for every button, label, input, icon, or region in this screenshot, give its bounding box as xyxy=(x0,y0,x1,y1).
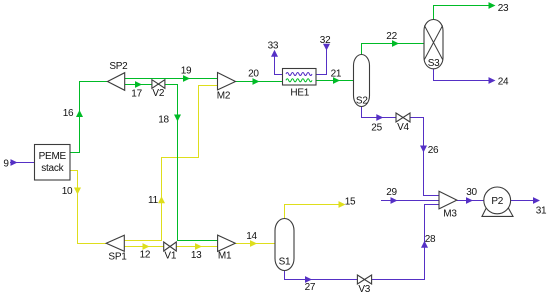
svg-text:31: 31 xyxy=(536,206,547,217)
svg-text:V4: V4 xyxy=(397,122,409,133)
svg-text:19: 19 xyxy=(181,66,192,77)
svg-text:M1: M1 xyxy=(218,251,232,262)
svg-text:stack: stack xyxy=(41,163,64,174)
svg-text:P2: P2 xyxy=(491,196,503,207)
svg-text:S2: S2 xyxy=(356,95,368,106)
svg-text:18: 18 xyxy=(158,115,169,126)
svg-text:24: 24 xyxy=(498,77,509,88)
svg-text:SP1: SP1 xyxy=(108,252,127,263)
svg-text:26: 26 xyxy=(428,145,439,156)
svg-text:S3: S3 xyxy=(428,58,440,69)
svg-text:SP2: SP2 xyxy=(109,61,128,72)
svg-text:17: 17 xyxy=(131,88,142,99)
svg-text:9: 9 xyxy=(3,158,9,169)
svg-text:25: 25 xyxy=(371,122,382,133)
svg-text:21: 21 xyxy=(331,69,342,80)
svg-text:PEME: PEME xyxy=(39,151,67,162)
svg-text:22: 22 xyxy=(386,31,397,42)
svg-text:30: 30 xyxy=(466,187,477,198)
svg-text:V3: V3 xyxy=(358,284,370,295)
svg-text:33: 33 xyxy=(268,40,279,51)
svg-text:27: 27 xyxy=(305,282,316,293)
svg-text:20: 20 xyxy=(248,69,259,80)
svg-text:V1: V1 xyxy=(164,250,176,261)
svg-text:29: 29 xyxy=(386,187,397,198)
svg-text:28: 28 xyxy=(425,234,436,245)
svg-text:S1: S1 xyxy=(279,256,291,267)
svg-text:V2: V2 xyxy=(152,88,164,99)
svg-text:32: 32 xyxy=(320,35,331,46)
svg-text:10: 10 xyxy=(62,186,73,197)
svg-text:11: 11 xyxy=(148,195,159,206)
svg-text:14: 14 xyxy=(246,231,257,242)
svg-text:M2: M2 xyxy=(217,91,231,102)
svg-text:M3: M3 xyxy=(443,208,457,219)
svg-text:12: 12 xyxy=(140,250,151,261)
svg-text:13: 13 xyxy=(191,250,202,261)
svg-text:15: 15 xyxy=(345,196,356,207)
svg-text:16: 16 xyxy=(63,108,74,119)
svg-text:23: 23 xyxy=(498,3,509,14)
svg-text:HE1: HE1 xyxy=(290,88,309,99)
